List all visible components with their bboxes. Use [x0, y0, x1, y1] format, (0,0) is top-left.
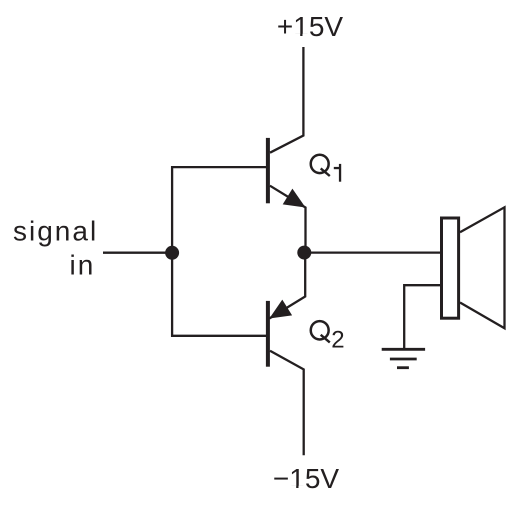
wire: signal in: [103, 252, 172, 254]
label Q1: [311, 155, 329, 173]
svg-text:signal: signal: [13, 216, 98, 247]
speaker horn: [460, 207, 505, 328]
transistor Q1 base bar: [266, 138, 270, 203]
transistor Q2 base bar: [266, 301, 270, 367]
svg-text:+15V: +15V: [277, 11, 343, 42]
svg-text:in: in: [70, 250, 96, 281]
wire: output node to speaker: [305, 251, 441, 253]
transistor Q2 emitter with arrow: [269, 258, 305, 319]
wire: +15V to Q1 collector: [270, 47, 303, 153]
wire: Q1 base: [171, 166, 266, 168]
wire: left rail connecting bases: [171, 166, 173, 337]
label Q2: [311, 321, 329, 339]
ground symbol: [382, 348, 425, 351]
node: input junction dot: [165, 246, 179, 260]
wire: Q2 collector to -15V: [270, 351, 304, 456]
svg-text:−15V: −15V: [273, 463, 339, 494]
speaker body rectangle: [442, 218, 459, 318]
svg-text:2: 2: [331, 327, 344, 354]
transistor Q1 emitter with arrow: [270, 186, 306, 247]
node: output junction dot: [297, 246, 311, 260]
wire: Q2 base: [171, 335, 266, 337]
wire: speaker to ground: [404, 285, 440, 349]
